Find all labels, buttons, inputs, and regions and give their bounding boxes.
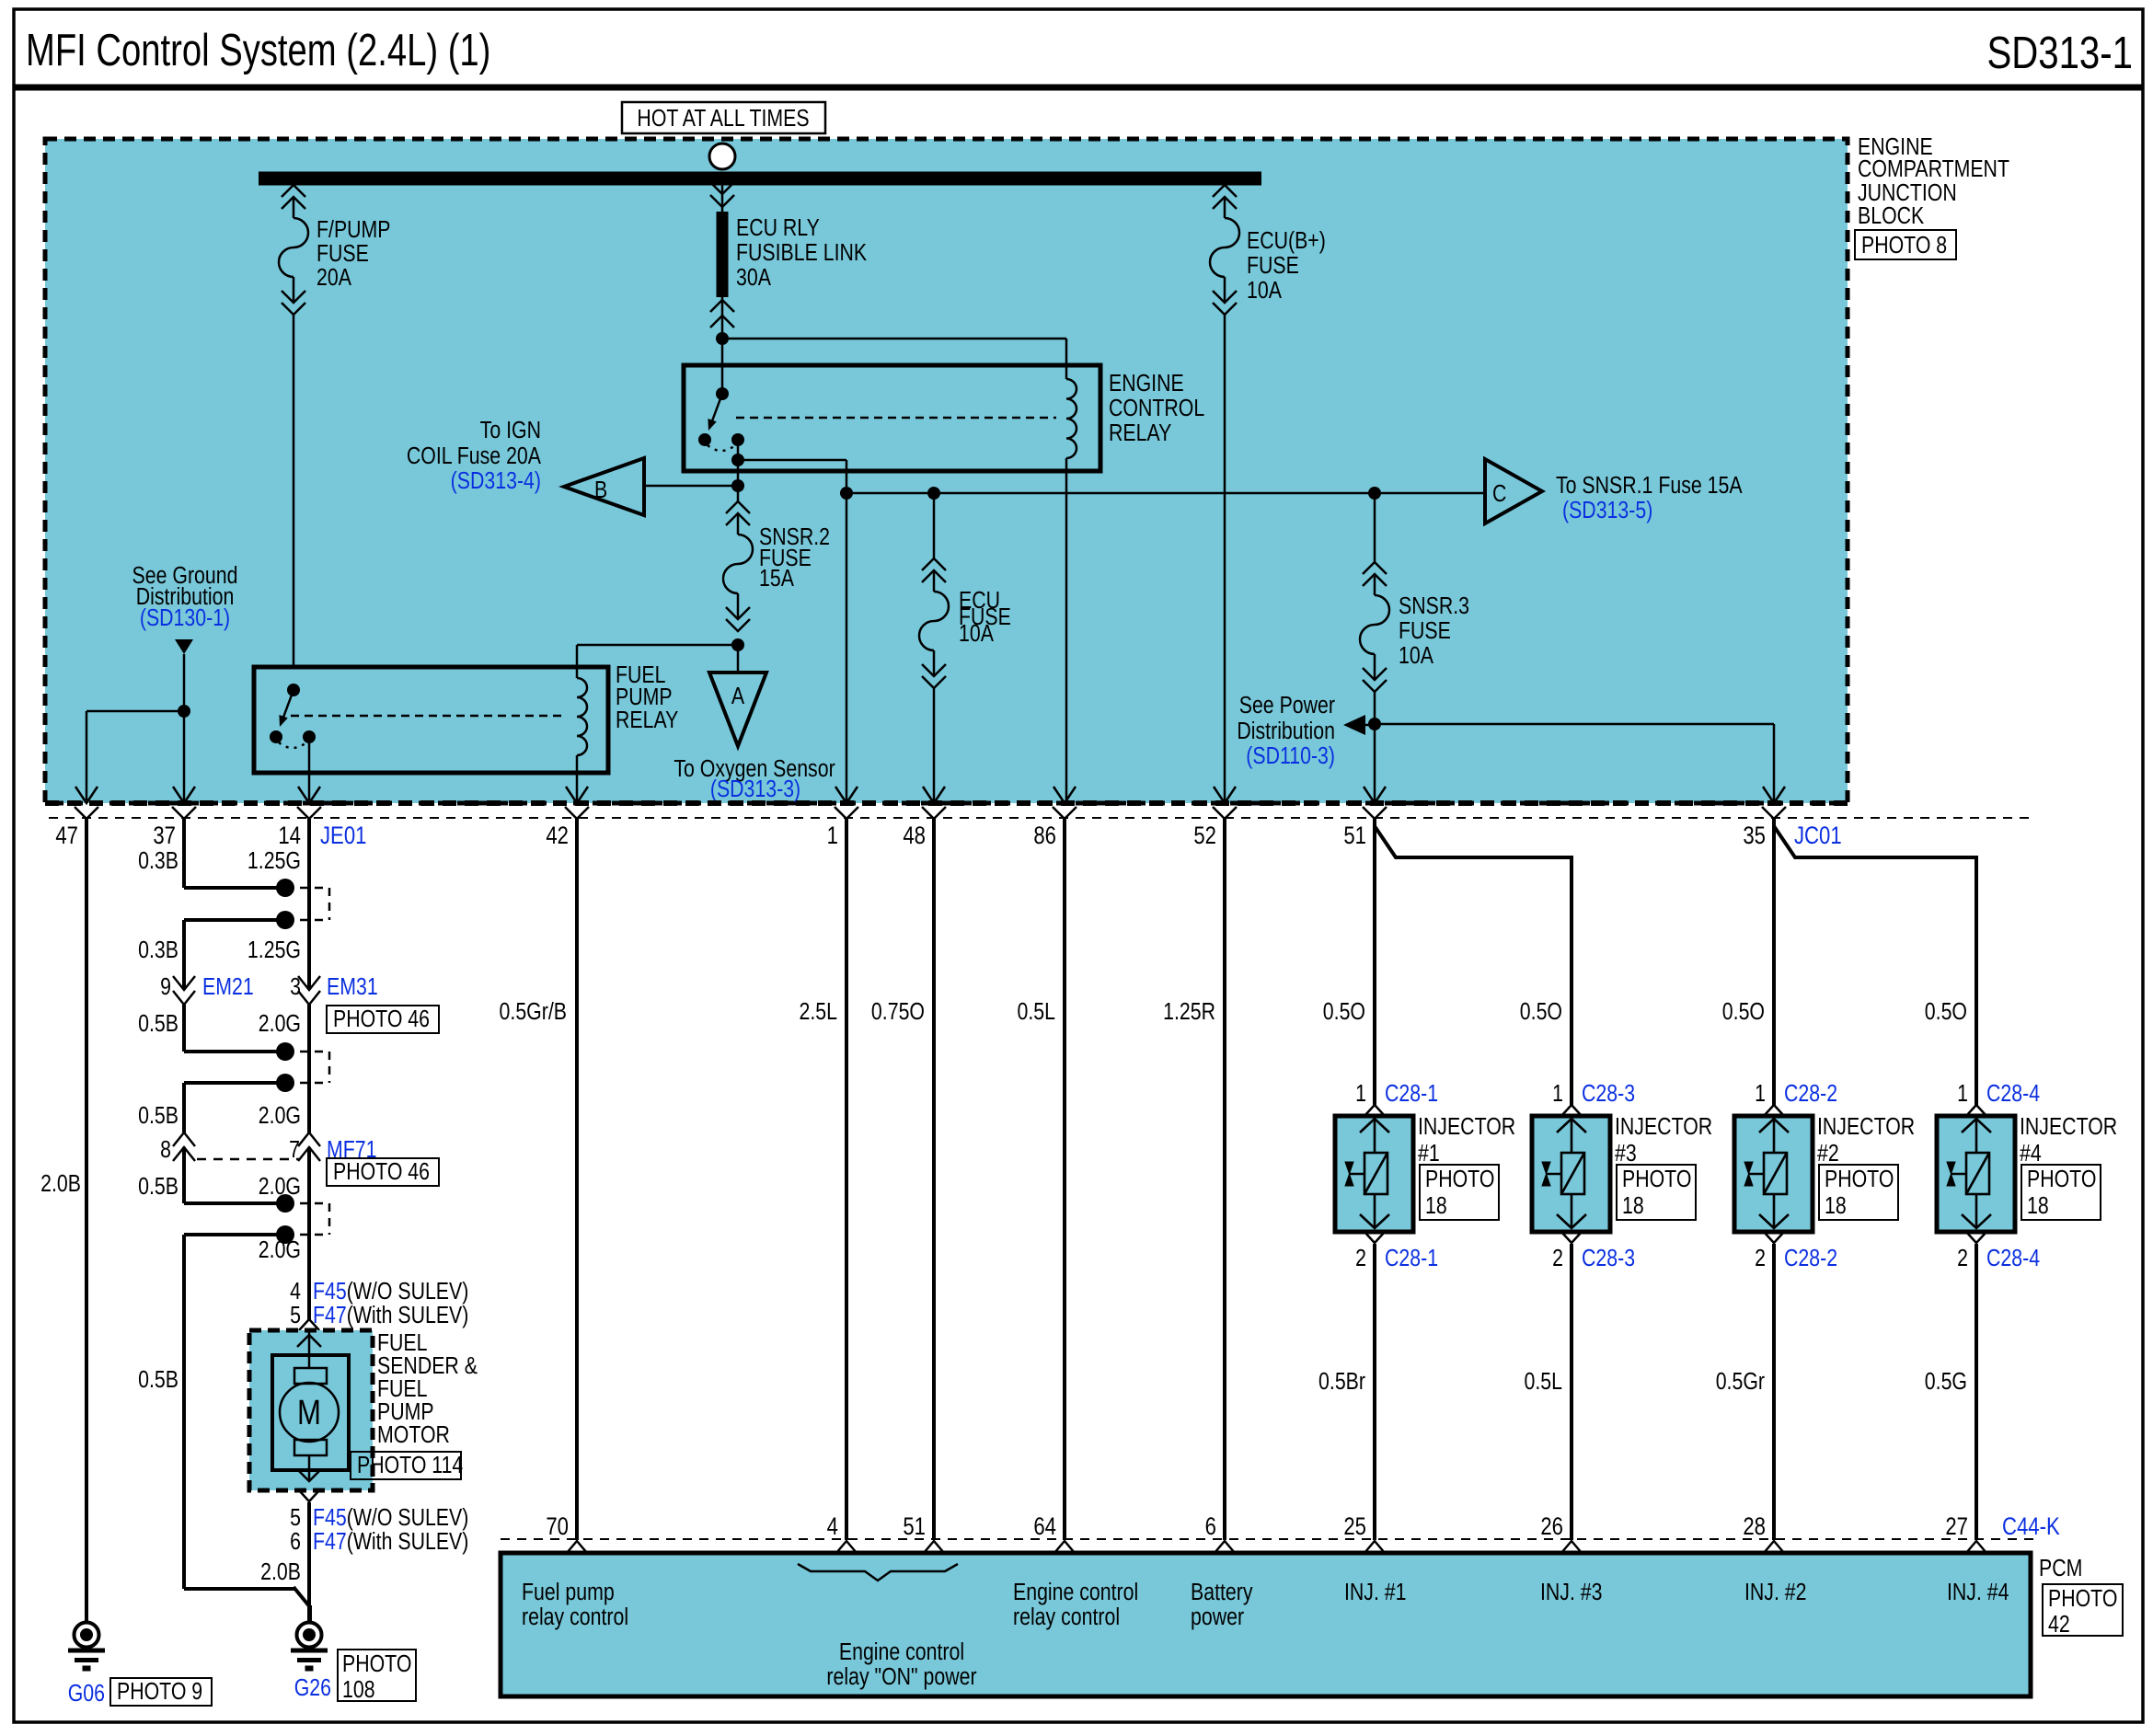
junction block bottom dashed emphasis (45, 800, 1848, 806)
svg-text:2: 2 (1755, 1245, 1766, 1272)
wire 0.5Br injector to PCM pin 25 (1373, 1244, 1376, 1540)
wire 0.75O pin 48 to PCM 51 (932, 819, 936, 1540)
svg-text:2: 2 (1957, 1245, 1968, 1272)
injector INJECTOR #2 (1734, 1105, 1813, 1243)
svg-text:F47(With SULEV): F47(With SULEV) (313, 1528, 468, 1556)
wire 2.0B to ground G26 (307, 1502, 311, 1623)
svg-text:28: 28 (1743, 1513, 1766, 1541)
svg-text:2: 2 (1355, 1245, 1366, 1272)
wire 0.5O pin 51 to injector 1 (1373, 819, 1376, 1106)
svg-text:ECU(B+): ECU(B+) (1247, 227, 1326, 255)
svg-text:INJECTOR: INJECTOR (2020, 1113, 2117, 1141)
PHOTO 9 label box (110, 1678, 212, 1706)
svg-text:2.0B: 2.0B (40, 1170, 81, 1198)
svg-text:(SD313-4): (SD313-4) (451, 467, 541, 495)
engine control relay switch (716, 387, 729, 400)
connector pin 37 at junction block exit (172, 787, 196, 819)
svg-text:JC01: JC01 (1794, 822, 1842, 850)
HOT AT ALL TIMES label box (622, 102, 825, 133)
wire: 0.5B turn to G26 (184, 1587, 295, 1591)
wire 0.5Gr/B pin 42 to PCM 70 (575, 819, 579, 1540)
svg-text:F47(With SULEV): F47(With SULEV) (313, 1302, 468, 1329)
svg-text:INJECTOR: INJECTOR (1817, 1113, 1915, 1141)
svg-text:0.3B: 0.3B (138, 847, 178, 875)
svg-text:C44-K: C44-K (2002, 1513, 2060, 1541)
svg-text:1.25R: 1.25R (1163, 998, 1215, 1026)
svg-text:10A: 10A (959, 620, 994, 648)
svg-text:Distribution: Distribution (1237, 718, 1335, 745)
connector EM21 (173, 976, 195, 1005)
svg-text:PHOTO 46: PHOTO 46 (333, 1006, 430, 1033)
svg-text:C28-4: C28-4 (1986, 1080, 2040, 1108)
svg-text:PHOTO 8: PHOTO 8 (1861, 232, 1947, 259)
fuel sender and fuel pump motor dashed box (249, 1330, 373, 1490)
svg-text:0.5Gr/B: 0.5Gr/B (500, 998, 567, 1026)
wire: junction to pin 37 (183, 711, 186, 800)
engine control relay internal dashed link (736, 417, 1056, 420)
svg-text:2.0G: 2.0G (259, 1102, 301, 1130)
triangle connector A (to oxygen sensor) (737, 645, 740, 673)
svg-text:1: 1 (1755, 1080, 1766, 1108)
fuel pump relay coil (577, 678, 587, 755)
svg-text:C28-2: C28-2 (1784, 1080, 1837, 1108)
svg-text:0.5O: 0.5O (1925, 998, 1967, 1026)
power rail inside junction block (846, 492, 1485, 495)
svg-text:ECU RLY: ECU RLY (736, 214, 820, 242)
svg-text:6: 6 (290, 1528, 301, 1556)
svg-text:4: 4 (827, 1513, 838, 1541)
relay box FUEL PUMP RELAY (254, 667, 608, 773)
connector into fuel sender (299, 1319, 319, 1330)
PCM pin 25 (1364, 1541, 1385, 1553)
svg-text:14: 14 (278, 822, 301, 850)
svg-text:2.0B: 2.0B (260, 1558, 301, 1586)
node: fusible link output junction (716, 332, 729, 345)
svg-text:C28-3: C28-3 (1582, 1245, 1635, 1272)
wire 0.5G injector to PCM pin 27 (1975, 1244, 1978, 1540)
PHOTO 18 label box (2021, 1165, 2101, 1220)
svg-text:3: 3 (290, 973, 301, 1001)
svg-text:52: 52 (1193, 822, 1216, 850)
wire: to triangle B (644, 485, 738, 488)
svg-text:PHOTO 9: PHOTO 9 (117, 1678, 202, 1706)
svg-text:0.5B: 0.5B (138, 1102, 178, 1130)
PCM pin 28 (1764, 1541, 1784, 1553)
connector pin 52 at junction block exit (1213, 787, 1237, 819)
connector out of fuel sender (299, 1490, 319, 1501)
connector pin 1 at junction block exit (835, 787, 858, 819)
svg-text:C28-1: C28-1 (1385, 1245, 1438, 1272)
svg-text:0.5O: 0.5O (1722, 998, 1765, 1026)
PCM pin 51 (924, 1541, 944, 1553)
PCM pin 6 (1215, 1541, 1235, 1553)
svg-text:See Power: See Power (1239, 692, 1335, 719)
PHOTO 42 label box (2043, 1584, 2123, 1636)
wire 2.5L pin 1 to PCM 4 (845, 819, 848, 1540)
svg-text:INJECTOR: INJECTOR (1418, 1113, 1515, 1141)
svg-text:64: 64 (1033, 1513, 1056, 1541)
wire 2.0B to ground G06 (85, 819, 88, 1623)
svg-text:C28-2: C28-2 (1784, 1245, 1837, 1272)
svg-text:relay "ON" power: relay "ON" power (826, 1663, 976, 1691)
injector INJECTOR #1 (1335, 1105, 1413, 1243)
svg-text:Battery: Battery (1191, 1579, 1253, 1606)
wire 0.5O pin 35 to injector 2 (1772, 819, 1776, 1106)
fuse SNSR.2 FUSE 15A (737, 486, 740, 501)
svg-text:PHOTO: PHOTO (2048, 1585, 2117, 1613)
node: rail junction ECU fuse (927, 487, 940, 500)
connector pin 42 at junction block exit (565, 787, 589, 819)
svg-text:18: 18 (1825, 1192, 1847, 1220)
fuse ECU(B+) FUSE 10A (1210, 185, 1239, 315)
svg-text:CONTROL: CONTROL (1109, 395, 1204, 422)
connector pin 35 at junction block exit (1762, 787, 1786, 819)
svg-text:B: B (594, 477, 607, 504)
injector INJECTOR #3 (1532, 1105, 1610, 1243)
svg-text:PHOTO: PHOTO (1622, 1166, 1691, 1193)
svg-text:15A: 15A (759, 565, 794, 592)
svg-text:relay control: relay control (1013, 1604, 1120, 1631)
svg-text:18: 18 (1425, 1192, 1447, 1220)
svg-text:1: 1 (1552, 1080, 1563, 1108)
wire 1.25R pin 52 to PCM 6 (1223, 819, 1226, 1540)
svg-text:20A: 20A (317, 264, 351, 292)
triangle connector C (to SNSR.1 fuse) (1485, 459, 1542, 523)
wire 0.3B to EM21 (182, 920, 186, 990)
svg-text:5: 5 (290, 1302, 301, 1329)
svg-text:MOTOR: MOTOR (377, 1421, 450, 1449)
svg-text:BLOCK: BLOCK (1858, 202, 1924, 230)
svg-text:INJ. #1: INJ. #1 (1344, 1579, 1407, 1606)
junction block lower connector dashed line (49, 817, 2033, 819)
svg-text:G26: G26 (294, 1674, 331, 1702)
svg-text:M: M (297, 1394, 321, 1432)
svg-text:FUSE: FUSE (1399, 617, 1451, 645)
fuel pump relay switch (287, 684, 300, 696)
svg-text:42: 42 (546, 822, 569, 850)
wire 0.5B to MF71 (182, 1083, 186, 1132)
svg-text:1: 1 (1957, 1080, 1968, 1108)
title separator rule (14, 85, 2143, 91)
connector MF71 (173, 1132, 195, 1161)
wire: fuel pump relay coil to pin 42 (576, 755, 579, 800)
wire: to fuel pump relay coil (577, 644, 738, 647)
svg-text:1: 1 (1355, 1080, 1366, 1108)
PHOTO 18 label box (1420, 1165, 1499, 1220)
svg-text:INJ. #2: INJ. #2 (1744, 1579, 1807, 1606)
node: switch output to pin-1 feed (731, 454, 744, 466)
wire 0.5L injector to PCM pin 26 (1570, 1244, 1573, 1540)
wire: engine control relay coil to pin 86 (1065, 458, 1068, 800)
svg-text:PCM: PCM (2039, 1555, 2082, 1582)
wire: junction to pin 51 (1374, 724, 1376, 800)
svg-text:18: 18 (1622, 1192, 1644, 1220)
ground G06 (68, 1623, 105, 1669)
wire 0.5L pin 86 to PCM 64 (1063, 819, 1066, 1540)
wire: fuel pump relay switch output to pin 14 (308, 737, 311, 800)
PCM box (501, 1553, 2031, 1696)
svg-text:0.5B: 0.5B (138, 1173, 178, 1201)
svg-text:(SD110-3): (SD110-3) (1246, 742, 1335, 770)
svg-text:(SD313-3): (SD313-3) (710, 776, 800, 803)
svg-text:(SD130-1): (SD130-1) (140, 604, 230, 632)
PHOTO 114 label box (351, 1452, 461, 1479)
svg-text:0.5L: 0.5L (1018, 998, 1055, 1026)
fuse ECU FUSE 10A (933, 493, 936, 558)
svg-text:0.5G: 0.5G (1925, 1368, 1967, 1396)
node: SNSR.3 output / power distribution junction (1374, 692, 1376, 724)
svg-text:SNSR.3: SNSR.3 (1399, 592, 1469, 620)
svg-text:9: 9 (160, 973, 171, 1001)
svg-text:C28-3: C28-3 (1582, 1080, 1635, 1108)
svg-text:(SD313-5): (SD313-5) (1562, 497, 1652, 524)
svg-text:2.0G: 2.0G (259, 1236, 301, 1264)
node: rail junction pin 1 (840, 487, 853, 500)
svg-text:10A: 10A (1247, 277, 1282, 305)
svg-text:FUSIBLE LINK: FUSIBLE LINK (736, 239, 867, 267)
fuse F/PUMP FUSE 20A (279, 185, 308, 315)
wire 0.5B long run to ground (182, 1235, 186, 1589)
svg-text:PHOTO: PHOTO (1425, 1166, 1494, 1193)
svg-text:2: 2 (1552, 1245, 1563, 1272)
connector EM31 (298, 976, 320, 1005)
svg-text:PHOTO 46: PHOTO 46 (333, 1158, 430, 1186)
svg-text:0.5Gr: 0.5Gr (1716, 1368, 1765, 1396)
svg-text:70: 70 (546, 1513, 569, 1541)
svg-text:#1: #1 (1418, 1140, 1440, 1167)
triangle connector B (to IGN coil fuse) (564, 458, 644, 515)
connector pin 47 at junction block exit (75, 787, 98, 819)
svg-text:relay control: relay control (522, 1604, 628, 1631)
svg-text:35: 35 (1743, 822, 1766, 850)
wire 0.5O branch to injector 3 (1375, 826, 1572, 1106)
wire: f/pump fuse to fuel pump relay (293, 315, 295, 669)
svg-text:COIL Fuse 20A: COIL Fuse 20A (407, 443, 541, 470)
svg-text:47: 47 (55, 822, 78, 850)
svg-text:To IGN: To IGN (480, 417, 541, 444)
fuel pump relay internal dashed link (291, 715, 567, 718)
fusible link ECU RLY FUSIBLE LINK 30A (710, 182, 734, 194)
svg-text:1.25G: 1.25G (248, 847, 301, 875)
injector INJECTOR #4 (1937, 1105, 2015, 1243)
see power distribution arrow (1343, 715, 1365, 735)
connector pin 14 at junction block exit (297, 787, 321, 819)
svg-text:G06: G06 (68, 1680, 105, 1707)
PCM connector dashed line (501, 1538, 2033, 1540)
svg-text:0.5O: 0.5O (1520, 998, 1562, 1026)
svg-text:26: 26 (1540, 1513, 1563, 1541)
svg-text:C: C (1492, 480, 1506, 508)
wire 1.25G / 2.0G JE01 chain (307, 819, 311, 990)
svg-text:0.5Br: 0.5Br (1318, 1368, 1365, 1396)
svg-text:2.5L: 2.5L (800, 998, 837, 1026)
svg-text:0.5B: 0.5B (138, 1366, 178, 1394)
motor brush top (294, 1368, 327, 1384)
svg-text:25: 25 (1343, 1513, 1366, 1541)
svg-text:FUSE: FUSE (1247, 252, 1299, 280)
svg-text:0.3B: 0.3B (138, 937, 178, 964)
svg-text:power: power (1191, 1604, 1244, 1631)
wire: ECU(B+) fuse to pin 52 (1224, 315, 1226, 800)
svg-text:#2: #2 (1817, 1140, 1839, 1167)
svg-text:SD313-1: SD313-1 (1986, 28, 2133, 78)
engine control relay coil (1066, 379, 1076, 458)
svg-text:INJECTOR: INJECTOR (1615, 1113, 1712, 1141)
svg-text:#4: #4 (2020, 1140, 2042, 1167)
connector pin 48 at junction block exit (922, 787, 946, 819)
motor M circle (280, 1383, 339, 1442)
connector pin 51 at junction block exit (1363, 787, 1387, 819)
svg-text:#3: #3 (1615, 1140, 1637, 1167)
splice joint middle (184, 1050, 285, 1053)
splice joint lower (184, 1201, 285, 1205)
node: junction to B and SNSR.2 (731, 479, 744, 492)
engine compartment junction block (blue region) (45, 139, 1848, 803)
svg-text:30A: 30A (736, 264, 771, 292)
svg-text:0.5B: 0.5B (138, 1010, 178, 1038)
svg-text:JE01: JE01 (320, 822, 366, 850)
bus bar (hot at all times) (259, 172, 1261, 186)
svg-text:Engine control: Engine control (1013, 1579, 1138, 1606)
PHOTO 46 label box (EM31) (327, 1006, 439, 1033)
svg-text:1: 1 (827, 822, 838, 850)
svg-text:8: 8 (160, 1136, 171, 1164)
svg-text:37: 37 (153, 822, 176, 850)
wire 0.5O branch to injector 4 (1774, 826, 1976, 1106)
svg-text:C28-4: C28-4 (1986, 1245, 2040, 1272)
wire: ECU fuse to pin 48 (933, 688, 936, 800)
svg-text:Engine control: Engine control (839, 1638, 964, 1666)
svg-text:0.75O: 0.75O (871, 998, 925, 1026)
PHOTO 8 label box (1855, 230, 1956, 259)
PHOTO 18 label box (1819, 1165, 1898, 1220)
node: ground distribution junction (178, 705, 190, 718)
wire: relay switch output (737, 440, 740, 486)
svg-text:51: 51 (1343, 822, 1366, 850)
svg-text:PHOTO: PHOTO (342, 1650, 411, 1678)
svg-text:6: 6 (1205, 1513, 1216, 1541)
svg-text:2.0G: 2.0G (259, 1010, 301, 1038)
motor brush bottom (294, 1440, 327, 1455)
relay box ENGINE CONTROL RELAY (684, 365, 1100, 471)
motor feed arrow top (308, 1330, 311, 1368)
connector pin 86 at junction block exit (1053, 787, 1076, 819)
PHOTO 108 label box (338, 1650, 416, 1701)
motor output arrow bottom (308, 1455, 311, 1481)
splice joint JE01 upper (184, 886, 285, 890)
svg-text:1.25G: 1.25G (248, 937, 301, 964)
svg-text:RELAY: RELAY (1109, 420, 1171, 447)
svg-text:PHOTO: PHOTO (2027, 1166, 2096, 1193)
svg-text:INJ. #4: INJ. #4 (1947, 1579, 2009, 1606)
PHOTO 18 label box (1617, 1165, 1696, 1220)
svg-text:EM31: EM31 (327, 973, 378, 1001)
wire: junction to engine control relay switch (721, 339, 724, 394)
svg-text:86: 86 (1033, 822, 1056, 850)
fuel pump motor inner box (272, 1355, 349, 1470)
PCM pin 4 (836, 1541, 857, 1553)
PCM pin 27 (1966, 1541, 1986, 1553)
svg-text:ENGINE: ENGINE (1109, 370, 1184, 397)
svg-text:To SNSR.1 Fuse 15A: To SNSR.1 Fuse 15A (1556, 472, 1743, 500)
svg-text:0.5L: 0.5L (1525, 1368, 1562, 1396)
svg-text:0.5O: 0.5O (1323, 998, 1365, 1026)
PCM pin 26 (1561, 1541, 1582, 1553)
svg-text:18: 18 (2027, 1192, 2049, 1220)
svg-text:PHOTO 114: PHOTO 114 (357, 1452, 463, 1479)
wire 0.3B from pin 37 (182, 819, 186, 888)
svg-text:108: 108 (342, 1676, 375, 1704)
svg-text:27: 27 (1945, 1513, 1968, 1541)
svg-text:A: A (731, 683, 744, 710)
svg-text:HOT AT ALL TIMES: HOT AT ALL TIMES (637, 105, 809, 132)
wire: junction to pin 35 (1375, 723, 1774, 726)
node: SNSR.2 fuse output junction (731, 638, 744, 651)
svg-text:C28-1: C28-1 (1385, 1080, 1438, 1108)
node: rail junction SNSR.3 (1368, 487, 1381, 500)
svg-text:Fuel pump: Fuel pump (522, 1579, 615, 1606)
svg-text:42: 42 (2048, 1611, 2070, 1638)
svg-text:MFI Control System (2.4L) (1): MFI Control System (2.4L) (1) (26, 26, 490, 76)
PCM pin 64 (1054, 1541, 1075, 1553)
PCM pin 70 (567, 1541, 587, 1553)
wire: feed to pin 1 (engine control relay ON power) (738, 459, 846, 462)
PHOTO 46 label box (MF71) (327, 1158, 439, 1186)
wire: junction to pin 47 (86, 710, 184, 713)
svg-text:10A: 10A (1399, 642, 1433, 670)
brace engine control relay ON power (798, 1564, 958, 1581)
svg-text:48: 48 (903, 822, 926, 850)
svg-text:INJ. #3: INJ. #3 (1540, 1579, 1603, 1606)
svg-text:RELAY: RELAY (616, 707, 678, 734)
node: hot-at-all-times terminal circle (709, 144, 735, 169)
wire: junction to engine control relay coil (722, 338, 1066, 340)
svg-text:51: 51 (903, 1513, 926, 1541)
fuse SNSR.3 FUSE 10A (1374, 493, 1376, 562)
svg-text:PHOTO: PHOTO (1825, 1166, 1894, 1193)
svg-text:EM21: EM21 (202, 973, 254, 1001)
wire 0.5Gr injector to PCM pin 28 (1772, 1244, 1776, 1540)
ground G26 (291, 1623, 328, 1669)
wire: rail to pin 1 (846, 493, 848, 800)
